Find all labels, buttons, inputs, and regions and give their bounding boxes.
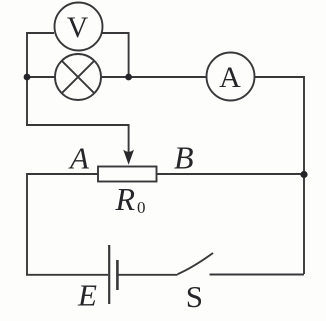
label B (right end of rheostat) — [174, 139, 194, 175]
svg-text:V: V — [67, 12, 88, 44]
node: junction on right rail — [300, 171, 307, 178]
label A (left end of rheostat) — [68, 140, 90, 175]
wire: right stub of voltmeter to corner — [102, 33, 129, 77]
slider arrow of rheostat — [123, 150, 134, 165]
node: junction right of lamp — [125, 74, 132, 81]
lamp L1 — [55, 54, 101, 100]
node: junction left of lamp — [24, 74, 31, 81]
svg-text:A: A — [219, 61, 241, 94]
label R0 — [115, 181, 146, 217]
rheostat R0 body — [98, 167, 157, 182]
battery E: long plate — [108, 245, 110, 304]
wire: wiper feed from left rail to arrow — [26, 125, 129, 152]
svg-text:A: A — [68, 140, 90, 175]
wire: battery to switch — [119, 274, 178, 276]
wire: bottom rail to battery — [26, 274, 108, 276]
ammeter A — [207, 53, 255, 101]
label S — [186, 279, 203, 314]
wire: rheostat left lead — [27, 173, 98, 175]
wire: left stub of voltmeter — [27, 32, 54, 34]
switch S lever — [178, 253, 214, 274]
wire: switch right contact to right rail — [210, 274, 305, 276]
svg-text:0: 0 — [137, 198, 146, 217]
svg-text:R: R — [115, 181, 136, 217]
wire: ammeter right lead to right rail — [255, 76, 305, 78]
svg-text:E: E — [77, 278, 97, 313]
wire: lamp right lead to ammeter — [101, 76, 207, 78]
label E — [77, 278, 97, 313]
wire: right rail — [303, 76, 305, 274]
svg-text:B: B — [174, 139, 194, 175]
wire: rheostat right lead — [157, 173, 305, 175]
wire: left rail lower — [26, 173, 28, 275]
voltmeter V — [55, 3, 103, 51]
wire: lamp left lead — [27, 76, 55, 78]
wire: left rail upper (corner to lamp node and down) — [26, 32, 28, 125]
battery E: short plate — [116, 260, 119, 290]
svg-text:S: S — [186, 279, 203, 314]
